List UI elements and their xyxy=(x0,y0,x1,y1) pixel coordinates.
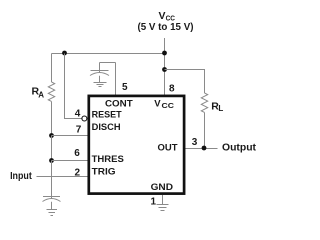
svg-text:V: V xyxy=(159,10,166,22)
node OUT junction xyxy=(202,146,207,151)
resistor RA xyxy=(48,82,54,101)
wire DISCH pin 7 xyxy=(52,135,89,137)
node DISCH junction xyxy=(49,133,54,138)
svg-text:RESET: RESET xyxy=(92,110,122,121)
wire THRES pin 6 xyxy=(52,160,89,162)
svg-text:OUT: OUT xyxy=(158,143,178,154)
svg-text:6: 6 xyxy=(74,148,80,159)
ground below CONT cap xyxy=(94,83,107,87)
wire DISCH node to THRES node xyxy=(51,136,53,161)
svg-text:CONT: CONT xyxy=(105,98,133,109)
capacitor CT curved plate xyxy=(43,199,61,202)
wire pin 5 vertical xyxy=(115,63,117,97)
wire VCC vertical to pin 8 xyxy=(164,38,166,96)
capacitor CT top plate xyxy=(43,196,60,198)
svg-text:CC: CC xyxy=(162,101,175,110)
capacitor CONT curved plate xyxy=(90,73,109,76)
ground below CT xyxy=(47,210,58,216)
svg-text:8: 8 xyxy=(169,84,175,95)
node THRES junction xyxy=(49,158,54,163)
wire GND pin 1 xyxy=(162,195,164,204)
svg-text:GND: GND xyxy=(151,182,174,193)
svg-text:5: 5 xyxy=(122,82,128,93)
node junction rail left xyxy=(62,51,67,56)
svg-text:Input: Input xyxy=(10,171,32,182)
node junction VCC rail xyxy=(162,51,167,56)
wire OUT pin 3 to Output xyxy=(185,148,218,150)
svg-text:1: 1 xyxy=(151,197,157,208)
svg-text:(5 V to 15 V): (5 V to 15 V) xyxy=(138,22,194,33)
wire CT to ground xyxy=(51,202,53,210)
wire left vertical RA branch top corner xyxy=(51,54,53,83)
svg-text:7: 7 xyxy=(76,124,82,135)
svg-text:A: A xyxy=(38,90,44,99)
svg-text:V: V xyxy=(154,99,161,110)
wire THRES node down to timing capacitor xyxy=(51,161,53,197)
wire Input to TRIG pin 2 xyxy=(37,176,89,178)
svg-text:TRIG: TRIG xyxy=(92,166,116,177)
ground below pin 1 xyxy=(157,205,169,211)
wire RL to OUT node xyxy=(204,113,206,149)
wire RESET branch vertical xyxy=(65,54,82,119)
capacitor CONT top plate xyxy=(91,70,109,72)
wire RA to DISCH node xyxy=(51,102,53,136)
svg-text:THRES: THRES xyxy=(92,154,124,165)
wire top rail xyxy=(52,53,165,55)
resistor RL xyxy=(201,93,207,112)
svg-text:Output: Output xyxy=(222,143,257,154)
svg-text:2: 2 xyxy=(75,167,81,178)
power VCC label xyxy=(138,10,194,33)
RESET inversion bubble xyxy=(82,116,87,121)
svg-text:3: 3 xyxy=(192,137,198,148)
wire CONT branch top xyxy=(100,62,116,64)
svg-text:DISCH: DISCH xyxy=(92,122,121,133)
svg-text:4: 4 xyxy=(75,109,81,120)
node junction VCC rail2 xyxy=(162,67,167,72)
wire CONT cap to ground xyxy=(99,76,101,82)
capacitor CONT lead xyxy=(99,63,101,71)
wire rail2 to RL xyxy=(165,70,205,94)
op-amp U1 555 timer body xyxy=(89,96,184,194)
svg-text:L: L xyxy=(218,104,223,113)
